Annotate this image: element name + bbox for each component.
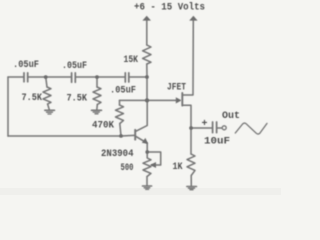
svg-text:2N3904: 2N3904 [101,149,134,160]
junction node C [145,75,149,79]
wire 500 to ground [146,177,148,186]
wire top RC ladder line y=77 [8,76,24,78]
wire C3 to node C [129,76,147,78]
svg-text:.05uF: .05uF [62,61,87,72]
power arrow left shaft [146,20,148,45]
capacitor C4 10uF left plate [212,122,214,133]
wire R1 to ground [48,104,50,110]
wire 1K to ground [190,176,192,187]
capacitor C2 .05uF right plate [74,73,76,82]
svg-text:7.5K: 7.5K [67,94,88,105]
junction node A [44,75,48,79]
potentiometer R5 500 wiper loop [147,152,161,165]
power arrow head left [142,16,151,21]
power arrow right shaft / JFET drain vertical [183,20,193,95]
svg-text:470K: 470K [92,120,114,131]
resistor R6 1K lead [190,128,192,154]
transistor Q1 2N3904 collector [136,100,148,131]
wire bias line 470K top to JFET gate [120,99,177,101]
junction node E (470K bottom) [119,134,123,138]
svg-text:7.5K: 7.5K [22,93,43,104]
sine wave output symbol [235,123,267,134]
resistor R6 1K zigzag [187,154,195,176]
junction node G (source/1K/cap) [189,126,193,130]
svg-text:JFET: JFET [167,83,186,94]
svg-text:.05uF: .05uF [13,60,39,71]
wire C1 to node A [28,76,71,78]
ground G1 [45,109,55,111]
svg-text:1K: 1K [173,162,183,173]
ground G4 [187,186,197,188]
wire cap to output terminal [217,127,222,129]
transistor Q1 emitter [136,136,148,152]
wire source node to output cap [191,127,212,129]
junction node F (emitter/pot) [145,150,149,154]
capacitor C1 .05uF left plate [23,73,25,82]
transistor Q1 base bar [134,130,136,140]
JFET Q2 channel bar [181,93,183,106]
resistor R1 7.5K lead [46,77,47,87]
wire node C down to node D [146,77,148,100]
power arrow head right [189,16,197,21]
resistor R5 500 zigzag [143,152,151,177]
wire 15K to node C [146,64,148,77]
ground G2 [92,109,102,111]
resistor R4 470K zigzag [116,105,124,124]
paper background [0,0,281,195]
wire 470K to bottom wire [120,124,121,137]
output terminal circle [222,126,226,130]
svg-text:+: + [202,119,208,130]
ground G3 [143,185,152,187]
capacitor C1 .05uF right plate [27,73,29,82]
capacitor C4 10uF right plate [216,122,218,133]
wire bottom feedback to base [8,134,135,137]
wire C2 to node B and on to C3 [76,76,125,78]
JFET Q2 source lead [183,105,191,128]
junction node D [145,98,149,102]
svg-text:10uF: 10uF [204,137,230,148]
capacitor C3 .05uF right plate [128,73,130,82]
svg-text:+6 - 15 Volts: +6 - 15 Volts [134,2,205,14]
wire R2 to ground [96,105,99,111]
resistor R2 7.5K zigzag [93,87,101,105]
resistor R1 7.5K zigzag [43,87,51,104]
resistor R3 15K zigzag [143,45,151,64]
svg-text:15K: 15K [124,55,139,66]
emitter arrow head [142,138,148,144]
pot wiper arrow head [150,162,156,168]
svg-text:.05uF: .05uF [110,85,136,96]
resistor R4 470K lead from bias line [119,100,121,105]
capacitor C2 .05uF left plate [71,73,73,82]
resistor R2 7.5K lead [96,77,98,87]
wire left feedback vertical [7,77,9,136]
capacitor C3 .05uF left plate [124,73,126,82]
JFET gate arrow head [176,97,182,103]
svg-text:500: 500 [121,163,134,174]
junction node B [95,75,99,79]
svg-text:Out: Out [222,111,240,122]
